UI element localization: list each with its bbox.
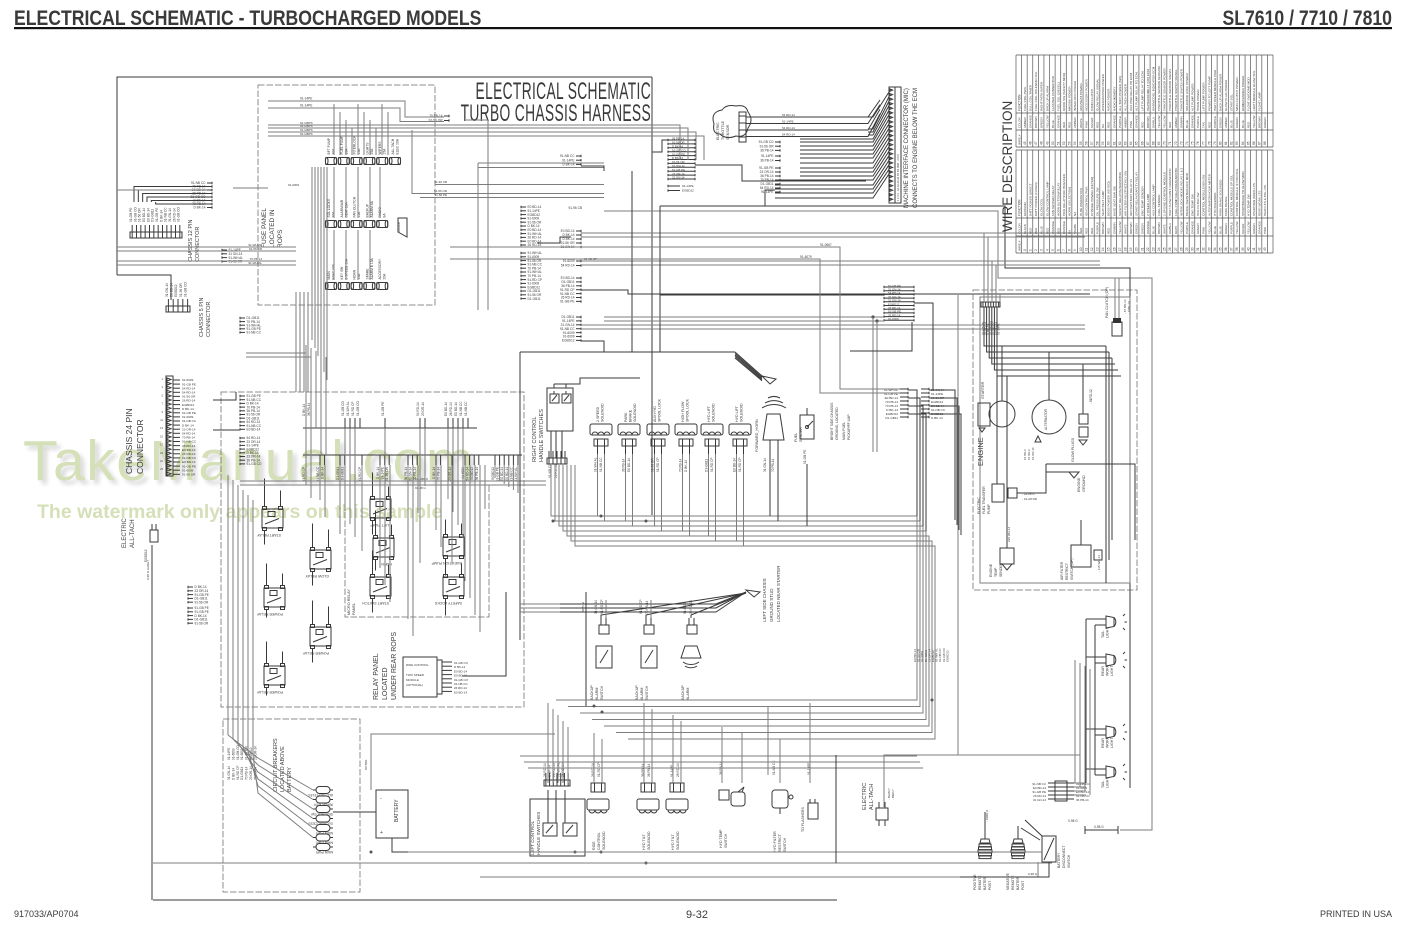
- svg-text:TAIL: TAIL: [1101, 781, 1105, 788]
- svg-text:54 RD-14: 54 RD-14: [782, 126, 795, 130]
- wires backup horizontal runs: [520, 603, 560, 605]
- lamp REAR WORK LIGHT: [1101, 652, 1127, 676]
- wire: [228, 735, 313, 790]
- svg-text:42: 42: [1258, 247, 1262, 251]
- wire: [1074, 782, 1086, 784]
- svg-text:CHASSIS 5 PIN: CHASSIS 5 PIN: [199, 298, 205, 337]
- svg-text:REAR: REAR: [1101, 666, 1105, 676]
- svg-text:48: 48: [1040, 141, 1044, 145]
- svg-text:26 RD-14: 26 RD-14: [449, 402, 453, 416]
- svg-text:ENG TEMP SENDER: ENG TEMP SENDER: [1140, 185, 1144, 216]
- fuse FUEL PUMP: [338, 135, 349, 165]
- svg-text:PWR RELAY/CIRC BREAKER: PWR RELAY/CIRC BREAKER: [1062, 173, 1066, 216]
- relay LIFT PUMP: [370, 497, 391, 528]
- svg-text:LOCATED: LOCATED: [382, 667, 389, 700]
- svg-text:BFT PUMP: BFT PUMP: [327, 137, 331, 154]
- solenoid HYD TILT SOLENOID: [637, 763, 659, 850]
- wire vertical 660-206: [659, 206, 661, 352]
- svg-text:D1-GB11: D1-GB11: [528, 297, 541, 301]
- svg-text:78: 78: [1207, 141, 1211, 145]
- hyd temp switch: [719, 761, 745, 848]
- svg-text:SILVER: SILVER: [1241, 223, 1245, 234]
- wire B3 left entry: [652, 140, 668, 152]
- svg-text:LIFT PUMP RELAY TO ECM: LIFT PUMP RELAY TO ECM: [1140, 71, 1144, 111]
- svg-text:YELLOW: YELLOW: [1246, 221, 1250, 234]
- wire: [929, 398, 957, 525]
- svg-text:YELLOW: YELLOW: [1163, 115, 1167, 128]
- ground stud fan: [560, 590, 760, 618]
- svg-text:5: 5: [1051, 249, 1055, 251]
- wire: [1074, 790, 1086, 792]
- right control connector bar: [547, 451, 567, 464]
- svg-text:HORN: HORN: [353, 269, 357, 279]
- svg-text:D1-GB11: D1-GB11: [336, 467, 340, 480]
- svg-text:YELLOW: YELLOW: [1179, 221, 1183, 234]
- wire: [984, 307, 1106, 346]
- svg-text:41: 41: [1252, 247, 1256, 251]
- svg-text:LIGHT: LIGHT: [1106, 777, 1110, 788]
- svg-text:31 GN-14: 31 GN-14: [1033, 798, 1046, 802]
- svg-text:HYD TEMP SW: HYD TEMP SW: [1246, 194, 1250, 216]
- circuit breaker MAIN PWR: [313, 825, 333, 836]
- wire: [551, 465, 917, 648]
- svg-text:GR/BRN: GR/BRN: [1179, 116, 1183, 128]
- svg-text:CHASSIS 12 PIN: CHASSIS 12 PIN: [188, 219, 194, 262]
- svg-text:HYD LIFT: HYD LIFT: [707, 405, 711, 422]
- svg-text:RED: RED: [1062, 121, 1066, 128]
- svg-text:FUNCTION: FUNCTION: [1017, 94, 1021, 111]
- svg-text:YELLOW: YELLOW: [1252, 115, 1256, 128]
- stack B4a: [759, 140, 780, 152]
- wire H5 bottom down: [581, 341, 604, 352]
- svg-text:ENGINE: ENGINE: [989, 563, 993, 577]
- wire: [349, 428, 351, 524]
- wires H3 long right: [581, 260, 1100, 262]
- wire L vertical 412: [412, 130, 435, 194]
- svg-text:ROPS: ROPS: [277, 229, 284, 248]
- svg-text:ALT PUMP RELAY TO ECM: ALT PUMP RELAY TO ECM: [1135, 72, 1139, 111]
- svg-text:35: 35: [1218, 247, 1222, 251]
- fuel sender: [794, 408, 814, 464]
- svg-text:DOME/FENDER POWER: DOME/FENDER POWER: [1241, 75, 1245, 111]
- svg-text:BATTER: BATTER: [983, 876, 987, 890]
- wire: [929, 414, 961, 535]
- to flashers plug: [801, 763, 818, 832]
- svg-text:BLUE: BLUE: [1230, 120, 1234, 128]
- breaker top labels: [227, 745, 257, 780]
- wire: [424, 428, 426, 486]
- svg-text:18: 18: [1124, 247, 1128, 251]
- svg-text:RED: RED: [1168, 121, 1172, 128]
- svg-text:2 SPEED: 2 SPEED: [596, 406, 600, 422]
- svg-text:54 RD-14: 54 RD-14: [782, 113, 795, 117]
- wire 755 right tail: [958, 754, 1080, 756]
- svg-text:RED: RED: [1096, 121, 1100, 128]
- svg-text:SAFETY LOCKS: SAFETY LOCKS: [434, 601, 462, 605]
- svg-text:17: 17: [1118, 247, 1122, 251]
- wire: [345, 230, 347, 280]
- svg-text:- 21-A8 RD: - 21-A8 RD: [1022, 497, 1038, 501]
- wire: [908, 390, 917, 516]
- wire: [117, 246, 296, 248]
- wire: [1079, 663, 1081, 787]
- fuse BFT PUMP: [325, 137, 336, 164]
- starter: [978, 381, 1015, 432]
- svg-text:ALARM: ALARM: [640, 688, 644, 700]
- svg-text:66: 66: [1140, 141, 1144, 145]
- svg-text:ALL TACH POWER (SW): ALL TACH POWER (SW): [1118, 76, 1122, 111]
- wire: [391, 525, 393, 536]
- svg-text:91-NB CC: 91-NB CC: [464, 401, 468, 416]
- svg-text:LIFT PUMP POWER: LIFT PUMP POWER: [1202, 82, 1206, 111]
- wire vertical 478: [477, 163, 479, 310]
- wire: [232, 480, 234, 739]
- wire: [616, 668, 932, 733]
- svg-text:70 PB-14: 70 PB-14: [771, 458, 775, 472]
- svg-text:ELECTRIC: ELECTRIC: [122, 518, 128, 548]
- svg-text:91-NB CC: 91-NB CC: [316, 466, 320, 481]
- svg-text:- 115 WH-14: - 115 WH-14: [1097, 555, 1101, 572]
- diode D1: [397, 218, 407, 237]
- wire: [494, 465, 496, 478]
- svg-text:KEY SW: KEY SW: [340, 266, 344, 280]
- stack H1: [560, 154, 581, 166]
- wire H4 step right: [581, 290, 1090, 294]
- solenoid HYD LIFT SOLENOID: [701, 403, 723, 472]
- svg-text:CONNECTOR: CONNECTOR: [135, 419, 145, 474]
- electric all-tach right plug: [876, 788, 895, 826]
- wire: [311, 167, 313, 340]
- svg-text:0-98 G: 0-98 G: [1068, 819, 1078, 823]
- svg-text:IGN CONTROL PWR: IGN CONTROL PWR: [1084, 186, 1088, 216]
- svg-text:START RELAY: START RELAY: [256, 533, 281, 537]
- wire: [440, 465, 442, 547]
- svg-text:43: 43: [1263, 247, 1267, 251]
- wire: [908, 414, 926, 531]
- svg-text:77: 77: [1202, 141, 1206, 145]
- wire: [227, 475, 229, 735]
- bundle labels above 642: [913, 647, 949, 662]
- svg-text:6: 6: [1056, 249, 1060, 251]
- svg-text:D BK-14: D BK-14: [684, 460, 688, 472]
- svg-text:31 GN-14: 31 GN-14: [227, 766, 231, 780]
- svg-text:MAIN CLUTCH POWER: MAIN CLUTCH POWER: [1235, 77, 1239, 111]
- svg-text:23: 23: [1151, 247, 1155, 251]
- fuse MAIN: [325, 263, 336, 289]
- svg-text:BATTER: BATTER: [1016, 876, 1020, 890]
- svg-text:37: 37: [1230, 247, 1234, 251]
- wire: [266, 688, 268, 696]
- svg-text:FUEL SOL (DIESEL): FUEL SOL (DIESEL): [1056, 82, 1060, 111]
- svg-text:D BK-14: D BK-14: [321, 467, 325, 479]
- alternator: [1023, 400, 1066, 460]
- svg-text:AMBER: AMBER: [1174, 116, 1178, 128]
- svg-text:ALT PUMP POWER: ALT PUMP POWER: [1191, 83, 1195, 111]
- svg-text:91-56 OR: 91-56 OR: [182, 473, 196, 477]
- wire pair 353: [246, 352, 306, 354]
- wire: [372, 473, 374, 497]
- svg-text:38: 38: [1235, 247, 1239, 251]
- svg-text:PRINTED IN USA: PRINTED IN USA: [1320, 909, 1392, 919]
- svg-text:8: 8: [1068, 249, 1072, 251]
- battery disconnect switch: [1042, 836, 1071, 868]
- schematic outer border top: [117, 77, 652, 275]
- svg-text:ORANGE: ORANGE: [1062, 221, 1066, 234]
- svg-text:22: 22: [1146, 247, 1150, 251]
- svg-text:81: 81: [1224, 141, 1228, 145]
- svg-text:220 WH-14: 220 WH-14: [1007, 526, 1011, 542]
- svg-text:63: 63: [1124, 141, 1128, 145]
- double stack 884: [884, 284, 914, 322]
- circuit breaker MAIN PWR: [313, 844, 333, 855]
- svg-text:91-14PE: 91-14PE: [300, 104, 312, 108]
- fuse BACKUP: [364, 200, 375, 227]
- svg-text:21: 21: [1140, 247, 1144, 251]
- wire: [462, 428, 464, 538]
- circuit breaker SEAT/BLK SW: [310, 806, 333, 817]
- svg-text:D BK-14: D BK-14: [302, 404, 306, 416]
- svg-text:GROUND: GROUND: [1082, 475, 1086, 492]
- svg-text:BASE SEAT BAR SW: BASE SEAT BAR SW: [1112, 186, 1116, 216]
- svg-text:91-WH AL: 91-WH AL: [514, 467, 518, 482]
- svg-text:91-56 OR: 91-56 OR: [249, 247, 263, 251]
- svg-text:E0 BD-14: E0 BD-14: [627, 458, 631, 472]
- wire: [651, 709, 653, 783]
- relay SAFETY LOCKS: [434, 575, 464, 606]
- svg-text:SOLENOID: SOLENOID: [633, 403, 637, 422]
- svg-text:BACKUP: BACKUP: [590, 685, 594, 700]
- svg-text:12: 12: [1090, 247, 1094, 251]
- wires horn fuel drops: [769, 452, 771, 516]
- relay INJECTION PUMP: [431, 535, 464, 566]
- svg-text:FAN CLUTCH (OP): FAN CLUTCH (OP): [1105, 287, 1109, 318]
- svg-text:ORANGE: ORANGE: [1258, 221, 1262, 234]
- svg-text:FUEL: FUEL: [794, 433, 798, 442]
- svg-text:FUEL COIL PWR: FUEL COIL PWR: [1023, 86, 1027, 111]
- svg-text:47: 47: [1034, 141, 1038, 145]
- svg-text:ACCESSORY POWER: ACCESSORY POWER: [1084, 78, 1088, 111]
- svg-text:54 RD-14: 54 RD-14: [466, 467, 470, 481]
- wire: [983, 233, 985, 302]
- wire: [317, 167, 319, 356]
- wire hyd filter riser 2: [767, 706, 769, 775]
- wire: [248, 751, 313, 828]
- svg-text:ALL-TACH: ALL-TACH: [130, 519, 136, 548]
- wire: [361, 465, 363, 551]
- wire: [333, 230, 335, 280]
- svg-text:ORANGE: ORANGE: [1051, 221, 1055, 234]
- svg-text:YELLOW: YELLOW: [1235, 221, 1239, 234]
- svg-text:START/IGN WORK LTS: START/IGN WORK LTS: [1252, 183, 1256, 216]
- wire: [743, 454, 745, 546]
- svg-text:BACK UP ALARM: BACK UP ALARM: [1045, 86, 1049, 111]
- svg-text:FLOAT LAMP: FLOAT LAMP: [1258, 92, 1262, 111]
- wire: [242, 490, 244, 747]
- wire: [117, 260, 296, 262]
- svg-text:RED: RED: [1246, 121, 1250, 128]
- svg-text:19: 19: [1129, 247, 1133, 251]
- svg-text:CHASSIS 24 PIN: CHASSIS 24 PIN: [124, 408, 134, 474]
- svg-text:ALTERNATOR: ALTERNATOR: [1044, 408, 1048, 430]
- svg-text:91-14PE: 91-14PE: [381, 467, 385, 479]
- wire: [567, 465, 929, 664]
- svg-text:ENGINE: ENGINE: [1077, 477, 1081, 492]
- svg-text:RED: RED: [1090, 227, 1094, 234]
- wire 91-14PE a: [268, 101, 444, 117]
- svg-text:BOSS POWER (KEYED): BOSS POWER (KEYED): [1107, 181, 1111, 216]
- wire B4 drop left: [765, 190, 775, 206]
- fan clutch option: [1105, 287, 1131, 336]
- svg-text:EGBD12: EGBD12: [562, 339, 575, 343]
- svg-text:D1-GB11: D1-GB11: [705, 459, 709, 472]
- wire: [987, 307, 1109, 352]
- wire vertical 836: [835, 755, 837, 863]
- svg-text:WHITE: WHITE: [1124, 224, 1128, 234]
- svg-text:E0 BD-14: E0 BD-14: [505, 467, 509, 481]
- svg-text:YELLOW: YELLOW: [1157, 115, 1161, 128]
- wire: [280, 491, 282, 507]
- svg-text:ORANGE: ORANGE: [1135, 115, 1139, 128]
- wire: [567, 727, 569, 783]
- wire: [1086, 618, 1106, 620]
- svg-text:ACC/SEAT POWER: ACC/SEAT POWER: [1079, 83, 1083, 111]
- right control handle switches box: [547, 388, 573, 431]
- svg-text:RADIO MEMORY: RADIO MEMORY: [1112, 86, 1116, 111]
- svg-text:E0 BD-14: E0 BD-14: [454, 690, 467, 694]
- svg-text:ALARM/AIR: ALARM/AIR: [340, 199, 344, 217]
- svg-text:WIRE #: WIRE #: [1017, 134, 1021, 145]
- wire vertical 877: [876, 321, 878, 452]
- svg-text:91-RD CP: 91-RD CP: [236, 765, 240, 780]
- svg-text:SOLENOID: SOLENOID: [676, 831, 680, 850]
- svg-text:D BK-14: D BK-14: [562, 163, 574, 167]
- wire: [464, 465, 466, 581]
- MIC fan wires: [775, 92, 889, 198]
- wire: [264, 531, 266, 545]
- svg-text:AMBER: AMBER: [1224, 116, 1228, 128]
- svg-text:HIGH SPEED MODULE PWR: HIGH SPEED MODULE PWR: [1213, 69, 1217, 111]
- svg-text:E0 BD-14: E0 BD-14: [247, 428, 261, 432]
- svg-text:58: 58: [1096, 141, 1100, 145]
- svg-text:GLOW RELAY SIGNAL: GLOW RELAY SIGNAL: [1096, 78, 1100, 111]
- svg-text:CONTROL MODULE IF CON SOL: CONTROL MODULE IF CON SOL: [1235, 168, 1239, 216]
- svg-text:91-WH AL: 91-WH AL: [248, 261, 262, 265]
- wire: [461, 524, 463, 535]
- light connector block: [1032, 781, 1090, 802]
- forward horn: [755, 397, 786, 472]
- svg-text:91-14PE: 91-14PE: [761, 190, 773, 194]
- wire: [451, 465, 453, 564]
- svg-text:SWITCH: SWITCH: [1067, 854, 1071, 868]
- svg-text:START/BRAKE TO GLOW MOD: START/BRAKE TO GLOW MOD: [1241, 171, 1245, 216]
- svg-text:SENSOR: SENSOR: [726, 124, 730, 140]
- svg-text:91-GBCO: 91-GBCO: [415, 477, 429, 481]
- wire: [323, 167, 325, 372]
- wire: [117, 264, 296, 266]
- svg-text:D BK-14: D BK-14: [231, 768, 235, 780]
- svg-text:LIGHT: LIGHT: [1110, 737, 1114, 748]
- circuit breaker GLOW/ACCESS: [308, 815, 333, 826]
- solenoid HYD LIFT SOLENOID: [729, 403, 751, 472]
- svg-text:SWITCH (OP): SWITCH (OP): [1070, 559, 1074, 580]
- wire: [995, 265, 997, 302]
- svg-text:91-6079: 91-6079: [800, 255, 812, 259]
- fuse SPARE: [364, 257, 375, 289]
- circuit breaker ALL-TACH ELEC: [307, 787, 333, 798]
- svg-text:36 PB-14: 36 PB-14: [622, 458, 626, 472]
- svg-text:HAND CLUTCH: HAND CLUTCH: [1090, 89, 1094, 111]
- wire: [319, 465, 321, 500]
- wire: [354, 428, 356, 537]
- svg-text:FUEL SENDER: FUEL SENDER: [1157, 194, 1161, 216]
- wire disconnect bottom: [960, 862, 1049, 877]
- svg-text:GROUND STUD: GROUND STUD: [769, 588, 774, 622]
- wire: [375, 560, 377, 571]
- wire: [994, 307, 1118, 370]
- svg-text:20A: 20A: [383, 273, 387, 280]
- stack H5: [560, 315, 581, 342]
- svg-text:BATT POWER DIRECT: BATT POWER DIRECT: [1029, 183, 1033, 216]
- svg-text:FUNCTION: FUNCTION: [1017, 199, 1021, 216]
- fuse FAN CLUTCH: [351, 196, 362, 227]
- fan clutch feed pair: [1114, 278, 1116, 322]
- svg-text:TEMP: TEMP: [994, 567, 998, 577]
- svg-text:11: 11: [1084, 247, 1088, 251]
- svg-text:91-NB CC: 91-NB CC: [509, 466, 513, 481]
- svg-text:GLOW CONTROL LAMP: GLOW CONTROL LAMP: [1045, 181, 1049, 216]
- wire vertical 873: [872, 317, 874, 452]
- svg-text:BRAKE SW/INTERLOCK MOD: BRAKE SW/INTERLOCK MOD: [1185, 172, 1189, 216]
- wire: [117, 250, 296, 252]
- circuit breaker MAIN PWR: [313, 834, 333, 845]
- svg-text:UNDER REAR ROPS: UNDER REAR ROPS: [391, 632, 398, 700]
- svg-text:YELLOW: YELLOW: [1207, 221, 1211, 234]
- stack K: [240, 394, 262, 431]
- svg-text:91-14PE: 91-14PE: [227, 748, 231, 760]
- backup alarm switch 1: [590, 599, 612, 700]
- svg-text:AUX HYD: AUX HYD: [653, 406, 657, 422]
- svg-text:MAIN PWR: MAIN PWR: [316, 850, 333, 854]
- svg-text:INTERLOCK: INTERLOCK: [353, 135, 357, 155]
- svg-text:POWER RELAY: POWER RELAY: [256, 690, 283, 694]
- svg-text:32: 32: [1202, 247, 1206, 251]
- wire: [672, 715, 674, 783]
- svg-text:EGBD12: EGBD12: [470, 467, 474, 480]
- svg-text:CHARGE POWER (KEYED): CHARGE POWER (KEYED): [1090, 177, 1094, 216]
- wire disconnect diagonal: [1021, 828, 1040, 840]
- wire: [563, 465, 926, 660]
- svg-text:CONNECTS TO ENGINE BELOW THE E: CONNECTS TO ENGINE BELOW THE ECM: [913, 88, 919, 208]
- svg-text:PARK BRAKE: PARK BRAKE: [1224, 196, 1228, 216]
- svg-text:0-98 G: 0-98 G: [1094, 825, 1104, 829]
- svg-text:FAN SW/FWD RELAY: FAN SW/FWD RELAY: [1051, 185, 1055, 216]
- wire: [452, 428, 454, 512]
- svg-text:LOCATED IN: LOCATED IN: [269, 209, 276, 248]
- svg-text:88: 88: [1263, 141, 1267, 145]
- wire: [266, 610, 268, 618]
- svg-text:91-GB CO: 91-GB CO: [236, 745, 240, 760]
- svg-text:91-56 OR: 91-56 OR: [651, 457, 655, 472]
- svg-text:INJECTION PUMP: INJECTION PUMP: [431, 561, 462, 565]
- svg-text:9: 9: [1073, 249, 1077, 251]
- svg-text:AIR FILTER RESTRICT/RLY SW: AIR FILTER RESTRICT/RLY SW: [1124, 171, 1128, 216]
- svg-text:91-GB CO: 91-GB CO: [341, 401, 345, 416]
- wire: [1074, 786, 1086, 788]
- header rule: [14, 27, 1392, 29]
- wires all-tach right feed: [884, 295, 958, 807]
- svg-text:POWER RELAY: POWER RELAY: [302, 651, 329, 655]
- wire: [233, 739, 313, 800]
